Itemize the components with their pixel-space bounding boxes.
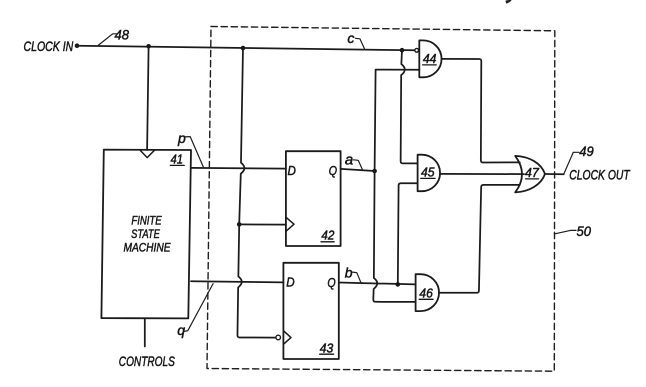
wire: clock branch to FF42 clock input xyxy=(239,223,286,225)
wire q: FSM to FF43 D input xyxy=(191,281,283,282)
label 49 xyxy=(564,152,579,174)
svg-text:41: 41 xyxy=(171,153,184,167)
label 48 xyxy=(99,34,118,45)
FSM clock triangle xyxy=(140,150,155,158)
svg-text:c: c xyxy=(347,30,354,46)
svg-text:43: 43 xyxy=(320,341,334,355)
svg-text:b: b xyxy=(345,265,353,281)
FF43 clock bubble xyxy=(276,335,281,340)
label c xyxy=(355,38,364,48)
wire: net a vertical, AND44 lower input to AND46 lower input (hops over b) xyxy=(373,70,419,302)
wire: clock drop to FF42/FF43 clocks (hops over p and q wires) xyxy=(237,48,275,338)
svg-text:CLOCK OUT: CLOCK OUT xyxy=(569,168,631,183)
AND gate 46 xyxy=(416,274,439,311)
wire: AND46 output to OR47 bottom input xyxy=(439,185,520,293)
wire a: FF42 Q output to node a xyxy=(341,169,375,171)
label b xyxy=(353,272,361,283)
svg-text:D: D xyxy=(288,163,297,178)
label a xyxy=(353,160,362,170)
dashed box 50 xyxy=(207,27,555,372)
svg-text:D: D xyxy=(286,275,295,290)
svg-text:FINITE: FINITE xyxy=(131,213,162,227)
AND gate 44 xyxy=(419,40,441,77)
wire: AND44 output to OR47 top input xyxy=(442,59,520,163)
D flip-flop 42 xyxy=(286,151,341,246)
D flip-flop 43 xyxy=(283,263,338,359)
label p xyxy=(185,137,204,168)
wire: clock drop to FSM clock input xyxy=(147,46,149,150)
wire: clock out xyxy=(545,173,564,175)
svg-text:47: 47 xyxy=(525,166,540,180)
node a junction xyxy=(372,169,377,174)
svg-text:46: 46 xyxy=(419,287,432,301)
figure title fragment (cropped comma) xyxy=(506,0,511,3)
svg-text:CLOCK IN: CLOCK IN xyxy=(24,39,74,54)
svg-text:48: 48 xyxy=(115,26,130,42)
node: clock junction to flip-flop clocks xyxy=(241,46,246,51)
wire: AND45 lower input down to node b xyxy=(398,183,418,284)
node c junction xyxy=(400,48,405,53)
svg-text:44: 44 xyxy=(423,52,437,66)
AND44 input bubble xyxy=(415,48,419,52)
wire p: FSM to FF42 D input xyxy=(191,167,286,170)
svg-text:Q: Q xyxy=(329,163,337,178)
wire: clock-in main net (48/c) xyxy=(77,46,415,51)
node: junction at FF42 clock branch xyxy=(237,222,242,227)
node: clock junction to FSM xyxy=(146,44,151,49)
wire: controls stub below FSM xyxy=(144,318,146,346)
wire: net c vertical to AND45 upper input (hops over AND44 lower input wire) xyxy=(401,50,418,163)
svg-text:45: 45 xyxy=(421,166,436,180)
OR gate 47 xyxy=(515,156,545,193)
svg-text:50: 50 xyxy=(577,223,592,239)
svg-text:STATE: STATE xyxy=(131,227,160,241)
label q xyxy=(184,284,213,332)
AND gate 45 xyxy=(418,155,440,192)
wire: AND45 output to OR47 middle input xyxy=(440,173,524,175)
svg-text:CONTROLS: CONTROLS xyxy=(119,354,176,369)
svg-text:Q: Q xyxy=(327,275,335,290)
svg-text:42: 42 xyxy=(321,229,334,243)
node b junction xyxy=(396,282,401,287)
svg-text:p: p xyxy=(177,130,186,146)
svg-text:a: a xyxy=(345,151,353,168)
CLOCK IN terminal dot xyxy=(75,43,80,48)
label 50 xyxy=(554,230,576,234)
svg-text:MACHINE: MACHINE xyxy=(124,241,172,255)
FSM box 41 xyxy=(101,150,191,319)
svg-text:q: q xyxy=(177,322,185,338)
wire b: FF43 Q output to AND46 upper input xyxy=(339,283,416,285)
svg-text:49: 49 xyxy=(579,143,594,159)
